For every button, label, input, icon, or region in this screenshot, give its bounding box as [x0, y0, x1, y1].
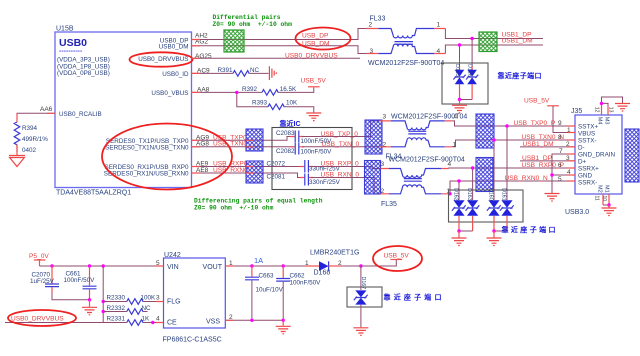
wire R2332 stub (NC): [144, 311, 148, 313]
svg-text:R393: R393: [252, 100, 268, 107]
wire RXN jog into C2081: [272, 173, 303, 178]
svg-text:D-: D-: [578, 145, 585, 152]
wire TXP_0 to FL34 pin3: [352, 121, 379, 137]
svg-text:GND: GND: [578, 173, 592, 180]
wire feed to R2330: [103, 301, 127, 303]
TVS diode D162: [452, 188, 466, 231]
wire R2330 to FLG: [144, 301, 164, 303]
wire drop TXP to TVS D161: [506, 126, 508, 200]
svg-text:330nF/25V: 330nF/25V: [309, 179, 341, 186]
svg-text:9: 9: [558, 120, 562, 127]
svg-text:D162: D162: [453, 188, 459, 201]
resistor R2330: [107, 295, 157, 305]
resistor R2331: [107, 316, 151, 326]
note differencing pairs (green): [194, 198, 323, 212]
wire SERDES0_RX1P: [192, 166, 273, 168]
junction RXN/D162: [457, 179, 460, 182]
length-match zone blue hatch box TX right: [476, 114, 494, 148]
svg-text:FP6861C-C1AS5C: FP6861C-C1AS5C: [163, 337, 222, 344]
svg-text:D+: D+: [578, 159, 587, 166]
svg-text:C2083: C2083: [276, 130, 295, 137]
svg-text:USB3.0: USB3.0: [565, 209, 589, 216]
op-amp U15B main SoC block USB0: [55, 26, 192, 197]
ground earth below pin7/pin4 rail: [545, 194, 560, 202]
svg-text:R394: R394: [22, 125, 38, 132]
junction R2331/CE: [151, 321, 154, 324]
ESD box middle (4 TVS): [449, 190, 524, 222]
wire SERDES0_TX1N: [192, 146, 273, 148]
junction at TVS ground: [458, 98, 461, 101]
capacitor C2081: [267, 173, 341, 186]
junction rail/C663: [250, 264, 253, 267]
ground earth below ESD box: [452, 100, 467, 113]
svg-text:0402: 0402: [22, 147, 37, 154]
svg-text:C2081: C2081: [267, 173, 286, 180]
wire USB_TXN_0 out of cap: [302, 146, 352, 148]
red pin stubs J35 left pins: [567, 126, 575, 181]
wire FL33 pin1 to USB1_DP: [445, 29, 543, 39]
ground open-triangle below R394: [9, 156, 25, 167]
svg-text:R392: R392: [242, 86, 258, 93]
ground right-pointing earth at R391: [269, 66, 276, 80]
J35 shell pins M4 M3 top: [593, 103, 613, 124]
svg-text:C662: C662: [290, 272, 306, 279]
svg-text:USB0_RCALIB: USB0_RCALIB: [59, 111, 102, 118]
wire joining D162/D163 bottoms: [459, 230, 473, 232]
resistor R393: [252, 100, 298, 110]
wire R391 to ground: [250, 72, 269, 74]
svg-text:USB0_ID: USB0_ID: [162, 71, 189, 78]
junction FL35 out corner: [448, 192, 451, 195]
annotation ellipse USB_DP/USB_DM: [296, 28, 351, 50]
junction feed/R2330: [102, 300, 105, 303]
svg-text:USB0_DM: USB0_DM: [159, 44, 189, 51]
wire drop TXN to TVS D160: [493, 140, 495, 200]
wire USB0_DRVVBUS to CE: [5, 322, 164, 324]
svg-text:D160: D160: [488, 188, 494, 201]
svg-text:R2332: R2332: [107, 305, 126, 312]
svg-text:Z0= 90 ohm +/-10 ohm: Z0= 90 ohm +/-10 ohm: [194, 204, 274, 211]
svg-text:M2: M2: [597, 185, 603, 193]
junction VSS/C662: [282, 319, 285, 322]
TVS diode D160: [487, 188, 501, 231]
svg-text:R2331: R2331: [107, 316, 126, 323]
wire R393 to ground: [285, 107, 314, 113]
TVS diode D126: [466, 64, 478, 100]
svg-text:USB0_DRVVBUS: USB0_DRVVBUS: [138, 56, 188, 63]
wire USB0_ID to R391: [192, 72, 234, 74]
wire joining TVS bottoms to ground: [460, 99, 473, 101]
annotation ellipse USB0_DRVVBUS bottom: [8, 310, 76, 326]
svg-text:AA6: AA6: [40, 106, 53, 113]
length-match zone blue hatch box RX near IC: [246, 161, 263, 183]
annotation ellipse USB0_DRVVBUS pin: [130, 52, 193, 66]
wire VSS rail: [225, 319, 283, 321]
note differential pairs (green): [213, 14, 293, 28]
svg-text:D168: D168: [314, 269, 331, 276]
wire USB0_VBUS: [192, 91, 263, 93]
wire USB_RXP_0 out of cap: [311, 166, 352, 168]
svg-text:靠近座子端口: 靠近座子端口: [502, 225, 558, 234]
wire USB0_DP: [192, 29, 367, 40]
svg-text:12: 12: [593, 107, 599, 113]
svg-text:D163: D163: [466, 188, 472, 201]
svg-text:GND_DRAIN: GND_DRAIN: [578, 152, 616, 159]
svg-text:U15B: U15B: [56, 26, 74, 33]
wire FL34 pin1 to J35 pin8 (USB_TXN0_N): [452, 140, 575, 147]
wire GND pin4 joins ground rail: [552, 174, 575, 176]
red stubs caps box entries: [246, 140, 254, 173]
power tap P5_0V: [29, 253, 49, 266]
svg-text:D125: D125: [454, 64, 460, 77]
svg-text:TDA4VE88T5AALZRQ1: TDA4VE88T5AALZRQ1: [56, 190, 131, 197]
svg-text:USB_RXN0: USB_RXN0: [213, 167, 248, 174]
ESD box bottom (D167): [347, 287, 382, 307]
svg-text:100nF/50V: 100nF/50V: [290, 279, 322, 286]
svg-text:USB_RXN0_N: USB_RXN0_N: [505, 175, 548, 182]
wire shell top to ground: [602, 97, 623, 103]
svg-text:6: 6: [558, 162, 562, 169]
capacitor C661: [64, 266, 97, 300]
wire USB0_RCALIB: [17, 113, 55, 122]
svg-text:10: 10: [601, 196, 607, 202]
svg-text:100nF/50V: 100nF/50V: [64, 277, 96, 284]
connector J35: [571, 108, 622, 194]
wire R394 to ground: [16, 145, 18, 156]
capacitor C2083: [276, 130, 332, 145]
svg-text:C2072: C2072: [267, 161, 286, 168]
wire RXN_0 to FL35 pin2: [352, 178, 381, 194]
svg-text:SERDES0_TX1N/USB_TXN0: SERDES0_TX1N/USB_TXN0: [105, 144, 189, 151]
svg-text:D126: D126: [467, 64, 473, 77]
svg-text:SSRX+: SSRX+: [578, 166, 599, 173]
wire TXN_0 to FL34 pin2: [352, 146, 379, 148]
resistor R392: [242, 86, 297, 95]
wire RXP_0 to FL35 pin3: [352, 167, 381, 169]
red pin stubs U242: [156, 266, 233, 323]
svg-text:1A: 1A: [254, 256, 263, 265]
svg-text:499R/1%: 499R/1%: [22, 136, 48, 143]
svg-text:USB0_VBUS: USB0_VBUS: [151, 90, 188, 97]
svg-text:R391: R391: [218, 67, 234, 74]
capacitor C2070: [30, 266, 90, 300]
svg-text:USB1_DM: USB1_DM: [502, 38, 533, 45]
wire down to TVS D167: [360, 266, 362, 290]
TVS diode D167: [354, 277, 368, 305]
svg-text:1: 1: [437, 22, 441, 29]
common-mode choke FL34: [379, 113, 467, 160]
svg-text:VIN: VIN: [167, 264, 179, 271]
wire shell bottom join: [603, 204, 609, 206]
resistor R391: [218, 67, 260, 76]
svg-text:M4: M4: [597, 117, 603, 125]
red pin stubs U15B right pins: [17, 40, 200, 174]
svg-text:USB_5V: USB_5V: [524, 98, 550, 105]
junction feed/R2332: [102, 310, 105, 313]
svg-text:WCM2012F2SF-900T04: WCM2012F2SF-900T04: [368, 60, 444, 67]
svg-text:FLG: FLG: [167, 298, 181, 305]
annotation ellipse SERDES pins: [102, 124, 232, 190]
junction D162 ground: [457, 229, 460, 232]
svg-text:USB_5V: USB_5V: [384, 252, 410, 259]
junction RXP/D163: [471, 166, 474, 169]
capacitor C2072: [267, 160, 341, 173]
junction VSS/C663: [250, 319, 253, 322]
wire FL34 pin4 to J35 pin9 (USB_TXP0_P): [452, 121, 575, 126]
ground earth below C661: [82, 300, 97, 315]
svg-text:8: 8: [558, 134, 562, 141]
svg-text:D161: D161: [501, 188, 507, 201]
svg-text:3: 3: [381, 161, 385, 168]
wire RXP into C2072: [272, 166, 303, 168]
svg-text:4: 4: [448, 161, 452, 168]
common-mode choke FL33: [367, 16, 446, 68]
diode D168: [305, 249, 359, 276]
svg-text:USB1_DM: USB1_DM: [523, 141, 554, 148]
svg-text:----------: ----------: [59, 48, 83, 55]
svg-text:3: 3: [383, 113, 387, 120]
wire VBUS branch down to R393: [237, 92, 268, 106]
length-match zone blue hatch box right of J35: [625, 129, 639, 182]
wire D167 to ground: [360, 305, 362, 328]
ground earth below D162/D163: [452, 231, 467, 246]
wire drop to ESD diode D125: [459, 45, 461, 66]
junction D160 ground: [492, 229, 495, 232]
junction D167 tap: [359, 264, 362, 267]
svg-text:USB_DP: USB_DP: [302, 32, 329, 39]
junction pin4/gnd vertical: [550, 173, 553, 176]
net label wire USB1_DM to J35 pin2: [520, 146, 575, 148]
ground earth top-right: [615, 104, 630, 112]
svg-text:NC: NC: [142, 305, 152, 312]
svg-text:SSTX+: SSTX+: [578, 124, 598, 131]
wire R392 to USB_5V: [279, 88, 314, 93]
svg-text:1uF/25V: 1uF/25V: [30, 278, 55, 285]
svg-text:靠近IC: 靠近IC: [280, 119, 301, 128]
wire GND_DRAIN pin7 to ground: [552, 154, 575, 193]
power tap USB_5V near J35: [524, 98, 575, 133]
ground earth below D160/D161: [487, 231, 502, 246]
wire VOUT rail: [225, 265, 305, 267]
junction rail/C2070: [50, 264, 53, 267]
svg-text:Z0= 90 ohm +/-10 ohm: Z0= 90 ohm +/-10 ohm: [213, 21, 293, 28]
junction USB1_DM / D125: [458, 43, 461, 46]
J35 shell pins M2 M1 bottom: [594, 185, 610, 205]
junction rail/C662: [282, 264, 285, 267]
ESD box near FL33: [442, 63, 488, 104]
wire USB_TXP_0 out of cap: [302, 136, 352, 138]
svg-text:100K: 100K: [141, 295, 157, 302]
svg-text:FL35: FL35: [381, 201, 397, 208]
svg-text:5: 5: [558, 176, 562, 183]
common-mode choke FL35: [381, 156, 465, 208]
resistor R2332: [107, 305, 152, 314]
svg-text:VBUS: VBUS: [578, 131, 595, 138]
wire feed to R2332: [103, 311, 127, 313]
capacitor C2082: [276, 143, 332, 156]
capacitor C662: [276, 266, 321, 320]
junction caps ground: [88, 298, 91, 301]
svg-text:10K: 10K: [286, 100, 298, 107]
capacitor C663: [245, 266, 284, 320]
ground earth below J35: [602, 205, 617, 216]
svg-text:USB_5V: USB_5V: [301, 78, 327, 85]
wire TXN into C2082: [272, 146, 294, 148]
junction TXP/D161: [505, 124, 508, 127]
svg-text:USB0_DRVVBUS: USB0_DRVVBUS: [11, 315, 64, 322]
wire TXP jog inside caps box: [272, 137, 294, 141]
svg-text:1K: 1K: [142, 316, 151, 323]
svg-text:CE: CE: [167, 319, 177, 326]
wire USB_RXN_0 out of cap: [311, 177, 352, 179]
op-amp U242 power switch block: [163, 252, 226, 344]
svg-text:J35: J35: [571, 108, 582, 115]
wire FL35 pin1 to J35 pin5 (USB_RXN0_N): [449, 181, 575, 194]
svg-text:M3: M3: [603, 117, 609, 125]
resistor R394 vertical: [14, 122, 48, 154]
svg-text:靠近座子端口: 靠近座子端口: [384, 293, 445, 302]
TVS diode D125: [453, 64, 465, 100]
svg-text:VOUT: VOUT: [203, 264, 223, 271]
power tap USB_5V (near R392): [301, 78, 327, 87]
wire joining D160/D161 bottoms: [494, 230, 507, 232]
length-match zone blue hatch box FL35 left: [365, 161, 381, 195]
svg-text:C2082: C2082: [276, 148, 295, 155]
svg-text:SSTX-: SSTX-: [578, 138, 597, 145]
wire USB0_DRVVBUS: [192, 57, 361, 59]
wire USB0_DM: [192, 46, 367, 54]
wire drop RXP to TVS D163: [472, 168, 474, 200]
junction shell top: [600, 102, 603, 105]
svg-text:USB_TXP0_P: USB_TXP0_P: [514, 120, 556, 127]
svg-text:C663: C663: [259, 272, 275, 279]
TVS diode D163: [466, 188, 480, 231]
svg-text:2: 2: [369, 22, 373, 29]
ground earth below D167: [353, 328, 368, 336]
svg-text:100nF/50V: 100nF/50V: [301, 148, 333, 155]
junction rail/C661: [88, 264, 91, 267]
wire FL33 pin4 to USB1_DM: [445, 45, 543, 54]
length-match zone blue hatch box FL34 left: [365, 120, 382, 154]
svg-text:VSS: VSS: [206, 318, 220, 325]
power tap USB_5V (bottom): [384, 252, 410, 259]
AC-coupling caps box: [272, 128, 352, 190]
junction rail/resistor feed: [102, 264, 105, 267]
svg-text:10uF/10V: 10uF/10V: [256, 287, 284, 294]
net label wire USB1_DP to J35 pin3: [520, 160, 575, 162]
wire P5_0V rail to U242 VIN: [40, 265, 164, 267]
svg-text:USB0_DRVVBUS: USB0_DRVVBUS: [285, 53, 338, 60]
svg-text:4: 4: [156, 316, 160, 323]
length-match zone blue hatch box TX near IC: [246, 129, 263, 151]
wire drop RXN to TVS D162: [458, 181, 460, 200]
junction on VBUS: [235, 91, 238, 94]
junction USB1_DP / D126: [470, 37, 473, 40]
length-match zone green hatch box (USB1): [479, 32, 497, 52]
ground earth below C662: [276, 320, 291, 334]
svg-text:(VDDA_0P8_USB): (VDDA_0P8_USB): [57, 70, 110, 77]
svg-text:LMBR240ET1G: LMBR240ET1G: [310, 249, 359, 256]
TVS diode D161: [500, 188, 514, 231]
junction shell bottom: [607, 203, 610, 206]
svg-text:R2330: R2330: [107, 295, 126, 302]
svg-text:13: 13: [608, 107, 614, 113]
svg-text:USB1_DP: USB1_DP: [522, 155, 553, 162]
svg-text:M1: M1: [603, 185, 609, 193]
wire resistor feed vertical: [102, 266, 104, 323]
svg-text:靠近座子端口: 靠近座子端口: [498, 71, 542, 80]
svg-text:SSRX-: SSRX-: [578, 180, 597, 187]
length-match zone blue hatch box RX right: [476, 158, 493, 192]
wire D168 to USB_5V: [341, 260, 396, 266]
svg-text:D167: D167: [360, 277, 366, 290]
svg-text:11: 11: [594, 196, 600, 201]
junction TXN/D160: [492, 138, 495, 141]
svg-text:P5_0V: P5_0V: [29, 253, 49, 260]
wire SERDES0_TX1P: [192, 139, 273, 141]
svg-text:4: 4: [454, 113, 458, 120]
wire drop to ESD diode D126: [471, 39, 473, 67]
ground earth below R393: [306, 113, 321, 121]
wire FL35 pin4 to J35 pin6 (USB_RXP0_P): [449, 167, 575, 170]
svg-text:3: 3: [156, 295, 160, 302]
length-match zone green hatch box (USB0_DP/DM): [224, 30, 244, 52]
wire SERDES0_RX1N: [192, 172, 273, 174]
svg-text:WCM2012F2SF-900T04: WCM2012F2SF-900T04: [389, 156, 465, 163]
annotation ellipse USB_5V bottom: [373, 246, 422, 271]
